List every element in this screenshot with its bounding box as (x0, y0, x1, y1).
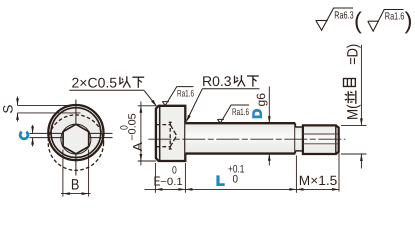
svg-text:Ra1.6: Ra1.6 (177, 88, 194, 99)
E extension line left (154, 163, 156, 193)
C dimension line with outside arrows (32, 125, 34, 147)
kanji 以 (120, 76, 131, 87)
undercut neck (295, 127, 303, 151)
shaft hidden dashed circle (48, 115, 103, 170)
kanji 以 (235, 75, 246, 86)
L arrows (185, 188, 192, 191)
M thread dia extension line bottom (341, 153, 367, 155)
C label (blue) (20, 132, 28, 139)
svg-text:2×C0.5: 2×C0.5 (72, 74, 118, 90)
svg-text:S: S (0, 105, 15, 114)
kanji 目 rotated (343, 79, 355, 87)
D g6 dimension line upper (arrow down to shaft top) (268, 87, 270, 124)
svg-text:−0.05: −0.05 (127, 113, 139, 141)
Ra6.3 symbol (316, 8, 353, 30)
thread end chamfer line (335, 126, 337, 154)
M arrows (296, 188, 303, 191)
S dimension upper extension line (18, 104, 81, 106)
2xC0.5 leader (144, 90, 156, 106)
R0.3 underline (202, 88, 260, 90)
svg-text:M×1.5: M×1.5 (299, 173, 338, 188)
B extension line left (62, 150, 64, 197)
svg-text:Ra6.3: Ra6.3 (334, 11, 354, 22)
svg-text:Ra1.6: Ra1.6 (385, 11, 405, 22)
Ra1.6 symbol (368, 10, 404, 32)
svg-text:=D): =D) (345, 44, 362, 65)
thread inner line upper (303, 133, 338, 135)
svg-text:0: 0 (172, 165, 177, 177)
hex socket hidden lines (156, 122, 176, 150)
S dimension lower extension line (18, 112, 81, 114)
offset line (lower, C reference) (30, 137, 113, 139)
S dimension line with outside arrows (17, 97, 19, 122)
E extension line right / L extension left (184, 163, 186, 193)
vertical centerline (75, 100, 77, 176)
svg-text:Ra1.6: Ra1.6 (232, 107, 249, 118)
main centerline (148, 138, 345, 140)
A dimension line (140, 102, 142, 166)
shoulder shaft (185, 123, 295, 153)
kanji 並 rotated (345, 91, 356, 104)
svg-text:−0.1: −0.1 (160, 176, 183, 188)
L extension right / MX1.5 extension left (295, 156, 297, 193)
B dimension line (61, 193, 91, 195)
thread inner line lower (303, 143, 338, 145)
svg-text:M(: M( (345, 105, 362, 121)
B extension line right (88, 150, 90, 197)
svg-text:R0.3: R0.3 (202, 73, 232, 89)
svg-text:A: A (130, 142, 145, 151)
svg-text:B: B (71, 177, 80, 194)
kanji 下 (247, 76, 259, 87)
socket corner marks (169, 121, 172, 123)
D label (blue bold, rotated) (252, 109, 262, 118)
D g6 dimension line lower (arrow up to shaft bottom) (268, 154, 270, 166)
head outer circle (48, 105, 103, 160)
MX1.5 extension right (338, 153, 340, 192)
svg-text:0: 0 (233, 173, 239, 185)
head chamfer inner circle (51, 108, 101, 158)
svg-text:): ) (405, 7, 413, 33)
kanji 下 (132, 77, 144, 88)
E arrows (155, 188, 162, 191)
bottom dimension line (145, 188, 340, 190)
M dimension line with outside arrows (360, 45, 362, 126)
hex socket (63, 124, 89, 154)
horizontal centerline (upper) (30, 132, 113, 134)
head chamfer line (159, 106, 161, 161)
L label (blue) (216, 175, 224, 186)
Ra1.6 symbol on shaft (217, 105, 249, 123)
svg-text:g6: g6 (254, 93, 268, 107)
M thread dia extension line top (341, 124, 367, 126)
Ra1.6 symbol on head (162, 87, 193, 106)
thread section (303, 125, 339, 154)
2xC0.5 underline (69, 89, 144, 91)
A dimension extension lines (138, 105, 156, 107)
head fill disc (51, 108, 100, 157)
svg-text:(: ( (354, 7, 362, 33)
shaft end edge (294, 123, 296, 153)
R0.3 leader (187, 89, 203, 121)
socket drill circle (61, 124, 91, 154)
head outline (chamfered left corners) (156, 106, 185, 161)
